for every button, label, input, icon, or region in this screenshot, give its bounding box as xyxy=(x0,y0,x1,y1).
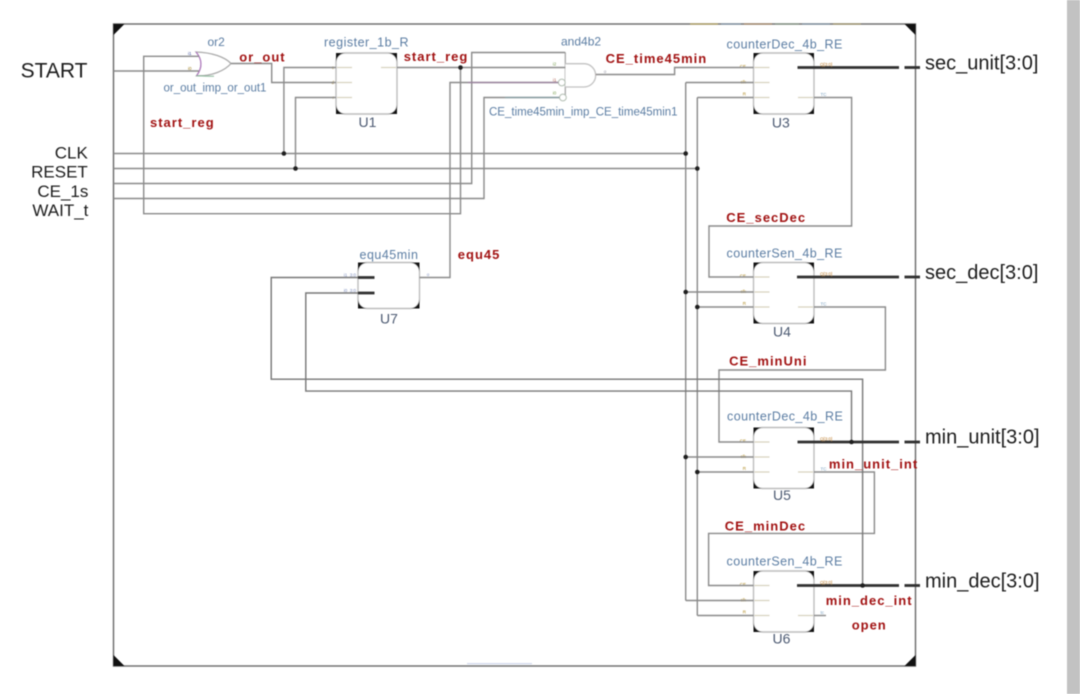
svg-text:equ45min: equ45min xyxy=(360,248,419,262)
svg-text:open: open xyxy=(852,617,887,632)
counter U3 body xyxy=(754,53,815,114)
svg-text:TC: TC xyxy=(821,92,828,97)
svg-text:i1: i1 xyxy=(553,77,557,82)
junction CLK trunk xyxy=(683,151,688,156)
bus min_dec U6 q output xyxy=(797,584,899,587)
frame corner mark bottom-right xyxy=(905,655,916,666)
svg-text:Q[3:0]: Q[3:0] xyxy=(820,437,832,442)
svg-text:CE: CE xyxy=(740,64,746,69)
register U1 body xyxy=(336,53,397,114)
U1 pin stubs xyxy=(337,68,396,98)
wire net WAIT_t to and4b2 i0 bubble xyxy=(114,98,560,199)
wire U6 tc open stub xyxy=(814,615,826,617)
svg-text:min_dec[3:0]: min_dec[3:0] xyxy=(925,571,1040,593)
U6 corner wedges xyxy=(754,571,815,632)
bus min_unit port segment xyxy=(905,441,921,444)
U5 pin stubs xyxy=(755,442,814,472)
U7 corner wedges xyxy=(358,263,420,309)
wire U1 rst tap xyxy=(296,98,337,169)
svg-text:CE: CE xyxy=(740,582,746,587)
svg-text:RESET: RESET xyxy=(31,163,88,182)
junction U4 clk xyxy=(683,290,688,295)
svg-text:TC: TC xyxy=(821,302,828,307)
comparator U7 body xyxy=(358,263,420,309)
or2 concave input edge (violet) xyxy=(196,52,201,76)
counter U4 body xyxy=(754,263,815,324)
U6 pin labels xyxy=(740,582,747,614)
and4b2 i1 inverter bubble xyxy=(558,79,565,86)
svg-text:CE_time45min: CE_time45min xyxy=(606,51,708,66)
svg-text:equ45: equ45 xyxy=(458,247,501,262)
junction min_dec_int on U6 q xyxy=(860,583,865,588)
wire CLK vertical trunk xyxy=(685,83,687,601)
junction U4 rst xyxy=(695,305,700,310)
or2 bottom-left edge tint xyxy=(197,75,215,77)
junction U1 rst on RESET xyxy=(293,166,298,171)
svg-text:CLK: CLK xyxy=(55,144,89,163)
svg-text:counterSen_4b_RE: counterSen_4b_RE xyxy=(727,246,843,260)
equ45 wire tint near and4b2 xyxy=(468,82,558,84)
frame tint dashes (scan artifact) xyxy=(467,24,861,664)
U1 corner wedges xyxy=(336,53,397,114)
frame corner mark bottom-left xyxy=(114,655,125,666)
U3 pin stubs xyxy=(755,68,814,98)
svg-text:or2: or2 xyxy=(208,35,226,49)
svg-text:counterDec_4b_RE: counterDec_4b_RE xyxy=(727,37,843,51)
svg-text:CE_secDec: CE_secDec xyxy=(726,210,806,225)
svg-text:CE_time45min_imp_CE_time45min1: CE_time45min_imp_CE_time45min1 xyxy=(489,107,678,119)
svg-text:sec_unit[3:0]: sec_unit[3:0] xyxy=(925,53,1038,75)
svg-text:register_1b_R: register_1b_R xyxy=(324,36,409,50)
junction min_unit_int on U5 q xyxy=(849,440,854,445)
bus sec_dec port segment xyxy=(905,276,921,279)
wire net start_reg U1 q to and4b2 i2 xyxy=(397,67,565,69)
svg-text:or_out: or_out xyxy=(239,49,285,64)
and4b2 i0 inverter bubble xyxy=(560,94,567,101)
wire net equ45 U7 o to and4b2 i1 bubble xyxy=(420,83,559,278)
U4 corner wedges xyxy=(754,263,815,324)
svg-text:Q[3:0]: Q[3:0] xyxy=(820,62,832,67)
svg-text:i1: i1 xyxy=(188,51,192,56)
wire net START xyxy=(114,70,200,72)
svg-text:counterSen_4b_RE: counterSen_4b_RE xyxy=(727,555,843,569)
svg-text:min_dec_int: min_dec_int xyxy=(826,593,913,608)
U1 pin labels xyxy=(331,65,334,100)
svg-text:CE_1s: CE_1s xyxy=(37,182,88,201)
svg-text:i0_3:0: i0_3:0 xyxy=(344,288,357,293)
svg-text:U7: U7 xyxy=(380,311,398,327)
and-gate and4b2 input bar xyxy=(564,53,566,101)
wire net CE_minUni U4 tc to U5 ce xyxy=(719,307,885,442)
svg-text:Q[3:0]: Q[3:0] xyxy=(820,580,832,585)
wire net CE_secDec U3 tc to U4 ce xyxy=(709,98,852,278)
counter U5 body xyxy=(754,428,815,489)
svg-text:or_out_imp_or_out1: or_out_imp_or_out1 xyxy=(164,82,267,94)
wire U1 clk tap xyxy=(284,68,336,154)
bus U7 i1 pin stub xyxy=(358,276,375,279)
svg-text:WAIT_t: WAIT_t xyxy=(32,201,88,220)
and4b2 output stub xyxy=(596,74,604,76)
wire U6 clk tap xyxy=(686,600,754,602)
and4b2 body xyxy=(565,64,595,87)
svg-text:sec_dec[3:0]: sec_dec[3:0] xyxy=(925,262,1038,284)
svg-text:start_reg: start_reg xyxy=(404,49,469,64)
frame corner mark top-right xyxy=(905,24,916,35)
wire U4 clk tap xyxy=(686,291,754,293)
svg-text:U4: U4 xyxy=(773,324,791,340)
svg-text:i0: i0 xyxy=(188,66,192,71)
junction U5 rst xyxy=(695,470,700,475)
wire start_reg feedback loop to or2 input i1 xyxy=(144,56,461,213)
junction RESET trunk xyxy=(695,166,700,171)
frame corner mark top-left xyxy=(114,24,125,35)
svg-text:START: START xyxy=(21,60,88,83)
svg-text:and4b2: and4b2 xyxy=(561,35,601,49)
wire U5 clk tap xyxy=(686,456,754,458)
sheet frame xyxy=(114,24,916,666)
bus U7 i0 pin stub xyxy=(358,292,375,295)
svg-text:U1: U1 xyxy=(359,114,377,130)
svg-text:CE_minDec: CE_minDec xyxy=(725,518,806,533)
svg-text:i1_3:0: i1_3:0 xyxy=(344,273,357,278)
junction U1 clk on CLK xyxy=(282,151,287,156)
svg-text:TC: TC xyxy=(821,467,828,472)
junction start_reg feedback xyxy=(458,65,463,70)
U4 pin stubs xyxy=(755,277,814,307)
wire RESET vertical trunk xyxy=(696,98,698,616)
junction U5 clk xyxy=(683,455,688,460)
wire net CE_time45min and4b2 o to U3 ce xyxy=(596,68,754,75)
svg-text:CE_minUni: CE_minUni xyxy=(729,354,807,369)
wire net CLK xyxy=(114,153,686,155)
svg-text:counterDec_4b_RE: counterDec_4b_RE xyxy=(727,410,843,424)
U3 pin labels xyxy=(740,64,747,96)
WAIT_t wire tint near and4b2 xyxy=(505,97,559,99)
bus sec_unit port segment xyxy=(905,66,921,69)
U5 corner wedges xyxy=(754,428,815,489)
or-gate or2 body xyxy=(196,52,231,76)
wire U5 rst tap xyxy=(697,471,753,473)
wire U6 rst tap xyxy=(697,615,753,617)
wire net min_dec_int feedback to U7 i1 xyxy=(271,278,862,586)
bus min_dec port segment xyxy=(905,584,921,587)
U4 pin labels xyxy=(740,274,747,306)
wire net CE_minDec U5 tc to U6 ce xyxy=(709,472,875,586)
svg-text:start_reg: start_reg xyxy=(150,115,215,130)
scrollbar band (right) xyxy=(1067,0,1080,694)
wire net min_unit_int feedback to U7 i0 xyxy=(306,293,852,442)
wire U3 rst tap xyxy=(697,97,753,99)
wire U4 rst tap xyxy=(697,306,753,308)
U3 corner wedges xyxy=(754,53,815,114)
svg-text:U5: U5 xyxy=(773,487,791,503)
svg-text:CE: CE xyxy=(740,439,746,444)
svg-text:Q[3:0]: Q[3:0] xyxy=(820,272,832,277)
svg-text:CE: CE xyxy=(740,274,746,279)
svg-text:i2: i2 xyxy=(553,62,557,67)
bus sec_unit U3 q output xyxy=(798,66,900,69)
wire net or_out to U1 d xyxy=(231,64,336,83)
wire net RESET xyxy=(114,168,698,170)
svg-text:i0: i0 xyxy=(553,91,557,96)
bus sec_dec U4 q output xyxy=(797,276,899,279)
svg-text:U3: U3 xyxy=(772,115,790,131)
wire U3 clk tap xyxy=(686,82,754,84)
svg-text:min_unit_int: min_unit_int xyxy=(829,456,918,471)
svg-text:min_unit[3:0]: min_unit[3:0] xyxy=(925,427,1040,449)
U5 pin labels xyxy=(740,439,747,471)
bus min_unit U5 q output xyxy=(798,441,900,444)
svg-text:U6: U6 xyxy=(773,631,791,647)
U6 pin stubs xyxy=(755,586,814,616)
counter U6 body xyxy=(754,571,815,632)
wire net CE_1s to and4b2 i3 xyxy=(114,53,566,184)
